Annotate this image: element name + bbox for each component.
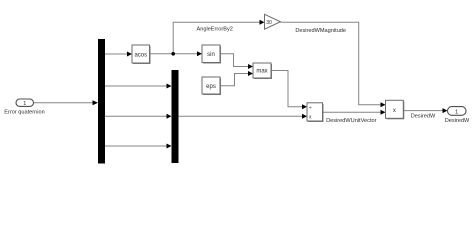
svg-text:DesiredW: DesiredW	[411, 113, 436, 119]
svg-text:sin: sin	[207, 52, 215, 58]
svg-text:x: x	[393, 108, 396, 114]
svg-text:DesiredWUnitVector: DesiredWUnitVector	[326, 118, 376, 124]
svg-text:30: 30	[266, 20, 272, 26]
svg-text:DesiredWMagnitude: DesiredWMagnitude	[295, 28, 346, 34]
svg-text:÷: ÷	[309, 105, 312, 111]
svg-text:max: max	[256, 69, 267, 75]
svg-text:Error quaternion: Error quaternion	[4, 109, 44, 115]
svg-text:1: 1	[23, 101, 26, 107]
svg-text:AngleErrorBy2: AngleErrorBy2	[197, 27, 233, 33]
svg-text:acos: acos	[134, 52, 147, 58]
svg-text:eps: eps	[206, 84, 216, 90]
svg-text:DesiredW: DesiredW	[445, 118, 470, 124]
svg-text:1: 1	[455, 109, 458, 115]
